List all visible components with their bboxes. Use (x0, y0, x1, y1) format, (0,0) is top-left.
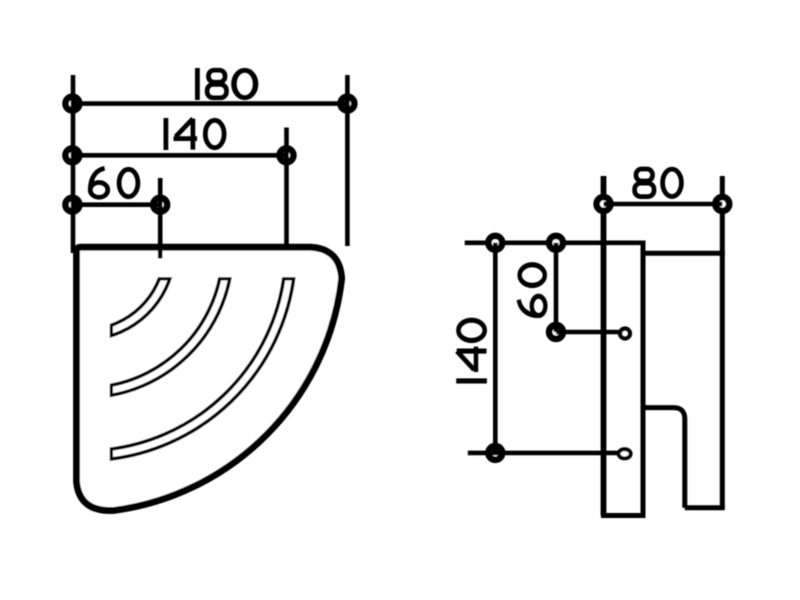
leg bottom (685, 505, 725, 510)
dot 140 top (488, 236, 502, 250)
dot 140 bottom (488, 446, 502, 460)
dim line 60 (72, 202, 160, 207)
slot 1 (inner drain slot) (91, 259, 170, 335)
dot 60 right (153, 198, 167, 212)
extension line 140 right (284, 128, 289, 250)
extension line left (common) (71, 75, 76, 253)
dot 60 top (549, 236, 563, 250)
mounting slot lower (619, 449, 631, 458)
dot 180 right (341, 97, 355, 111)
mounting hole upper (620, 329, 630, 339)
label 140 rotated (456, 320, 487, 381)
dot 80 left (597, 197, 611, 211)
shelf right edge + 80 extension (720, 176, 725, 508)
dim line 60 vertical (554, 243, 559, 332)
extension 60 bottom horizontal (556, 330, 619, 335)
dim line 140 vertical (493, 243, 498, 453)
slot 3 (outer drain slot) (99, 271, 290, 455)
label 60 (90, 168, 138, 197)
dim line 180 (72, 101, 347, 106)
dot 80 right (715, 197, 729, 211)
dim line 80 (604, 202, 723, 207)
shelf outline (77, 247, 342, 510)
dot 140 left (66, 148, 80, 162)
dot 180 left (66, 97, 80, 111)
label 60 rotated (519, 265, 546, 316)
label 140 (166, 118, 224, 150)
dot 60 bottom (549, 325, 563, 339)
extension 140 bottom horizontal (468, 451, 618, 456)
plate top / 140-60 top extension line (465, 241, 646, 246)
dot 60 left (66, 198, 80, 212)
label 180 (197, 68, 255, 100)
wall plate right edge (641, 243, 646, 516)
wall plate left edge + 80 extension (601, 176, 607, 516)
notch profile (643, 408, 685, 508)
wall plate bottom (601, 513, 646, 518)
dot 140 right (280, 148, 294, 162)
dim line 140 (72, 153, 286, 158)
shelf top edge (646, 251, 725, 256)
slot 2 (middle drain slot) (95, 265, 227, 393)
extension line 60 right (158, 178, 163, 259)
extension line 180 right (345, 75, 350, 246)
label 80 (635, 169, 682, 197)
